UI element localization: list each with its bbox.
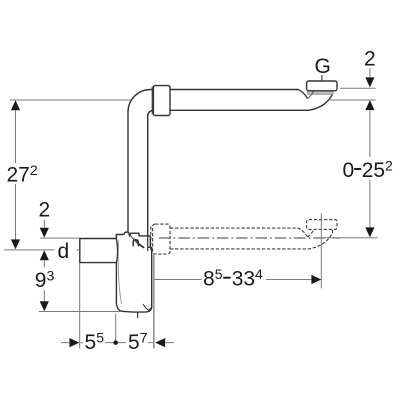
trap body fill xyxy=(80,232,152,312)
2 left down arrow xyxy=(40,228,49,238)
svg-text:2: 2 xyxy=(364,47,376,70)
dim 2 left vertical xyxy=(43,220,45,228)
ext line d centerline xyxy=(4,249,80,251)
elbow inner edge xyxy=(148,110,154,236)
svg-text:2: 2 xyxy=(39,199,51,222)
washer under flange xyxy=(308,91,333,95)
G tick xyxy=(321,76,323,81)
0-25 up arrow xyxy=(365,100,374,110)
27-2 down arrow xyxy=(11,239,20,249)
pipe top edge xyxy=(170,89,298,91)
svg-text:G: G xyxy=(315,55,331,78)
9-3 down arrow xyxy=(40,301,49,311)
nut at elbow xyxy=(153,86,170,116)
right ext y=237.8 xyxy=(318,237,378,239)
bottom right arrow (points left) xyxy=(155,338,165,347)
bottom left arrow (points right) xyxy=(69,338,79,347)
ext vertical x=153.9 xyxy=(153,255,155,349)
ext line pipe top xyxy=(40,237,80,239)
2 right down arrow xyxy=(365,77,374,87)
ext vertical x=79.7 xyxy=(79,263,81,348)
clamp inner U xyxy=(133,240,138,246)
dim bottom horizontal xyxy=(61,342,174,344)
inlet pipe d xyxy=(80,239,117,263)
dashed pipe bottom edge + end curve xyxy=(170,230,333,249)
pipe end behind nut xyxy=(151,87,153,114)
dashed nut xyxy=(153,224,170,254)
white gaps for text on lines xyxy=(4,157,391,351)
dim 27-2 vertical xyxy=(15,110,17,239)
clamp shading diagonals xyxy=(135,240,144,248)
0-25 down arrow xyxy=(365,227,374,237)
ext line top (outlet level) xyxy=(10,99,132,101)
dim 8-33 horizontal xyxy=(154,279,311,281)
flange G xyxy=(307,81,337,91)
pipe bottom edge + end curve xyxy=(170,91,333,110)
elbow fill xyxy=(128,90,153,251)
dashed pipe top edge xyxy=(170,227,298,229)
svg-text:0: 0 xyxy=(343,159,355,182)
8-33 right arrow xyxy=(311,275,321,284)
ext line trap bottom xyxy=(39,311,121,313)
svg-text:d: d xyxy=(58,240,70,263)
dashed flange xyxy=(307,220,337,230)
trap body outline xyxy=(80,232,152,312)
elbow outer edge xyxy=(128,90,153,235)
V notch under flange xyxy=(298,90,308,99)
dash-dot centerline xyxy=(159,237,340,239)
body bottom curl xyxy=(143,304,151,310)
ext vertical right x=321.3 xyxy=(320,214,322,289)
right ext y=100 xyxy=(330,99,376,101)
9-3 up arrow xyxy=(40,250,49,260)
dim right vertical xyxy=(369,68,371,228)
body inner curve left xyxy=(118,240,121,304)
bottom dot xyxy=(113,340,118,345)
horizontal pipe fill xyxy=(170,90,336,111)
dashed V notch xyxy=(298,228,308,237)
ext vertical x=115.7 xyxy=(115,314,117,341)
right ext y=88.3 xyxy=(341,87,376,89)
pipe right edge inside body xyxy=(148,236,151,251)
outlet stub tick below body xyxy=(137,312,139,318)
27-2 up arrow xyxy=(11,100,20,110)
dim 9-3 vertical xyxy=(43,260,45,301)
